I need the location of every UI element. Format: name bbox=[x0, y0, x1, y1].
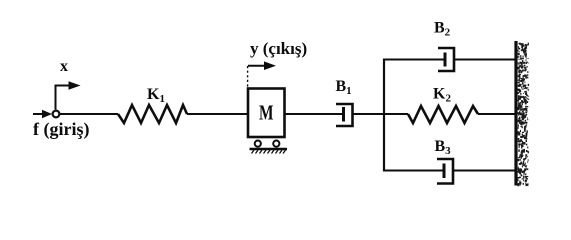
wire: bus to damper B2 rod bbox=[384, 59, 445, 61]
wire: damper B1 to junction bus bbox=[353, 113, 385, 115]
wire: spring K1 to mass bbox=[187, 113, 247, 115]
svg-text:f (giriş): f (giriş) bbox=[33, 119, 89, 140]
wheel left bbox=[255, 141, 261, 147]
wall edge line bbox=[514, 41, 517, 186]
mass M box bbox=[248, 89, 285, 138]
svg-text:x: x bbox=[60, 58, 68, 75]
damper B2 piston plate bbox=[444, 53, 447, 67]
svg-text:y (çıkış): y (çıkış) bbox=[250, 39, 307, 58]
damper B3 cylinder bbox=[437, 159, 453, 184]
damper B3 piston plate bbox=[443, 164, 446, 179]
wheel right bbox=[273, 141, 279, 147]
ground line under wheels bbox=[250, 148, 288, 150]
damper B1 piston plate bbox=[342, 107, 345, 122]
wire: damper B3 to wall bbox=[453, 170, 515, 172]
dashed leader from y arrow to mass top bbox=[247, 66, 249, 87]
svg-text:B2: B2 bbox=[434, 20, 451, 39]
wire: bus to spring K2 bbox=[384, 113, 408, 115]
wire: damper B2 to wall bbox=[454, 59, 515, 61]
spring K2 bbox=[408, 106, 478, 123]
svg-text:M: M bbox=[259, 101, 274, 125]
node: input pivot circle bbox=[53, 111, 60, 118]
svg-text:B1: B1 bbox=[336, 78, 352, 97]
svg-text:K2: K2 bbox=[433, 86, 451, 105]
input force arrow f bbox=[33, 110, 52, 119]
ground hatching bbox=[252, 150, 286, 154]
wire: bus to damper B3 rod bbox=[384, 170, 444, 172]
wire: mass to damper B1 piston rod bbox=[285, 113, 344, 115]
y output arrow bbox=[248, 61, 276, 70]
damper B1 cylinder bbox=[336, 104, 353, 126]
damper B2 cylinder bbox=[438, 48, 454, 71]
svg-text:K1: K1 bbox=[147, 86, 165, 105]
junction bus vertical wire bbox=[383, 59, 385, 172]
svg-text:B3: B3 bbox=[435, 138, 452, 157]
wire: spring K2 to wall bbox=[478, 113, 515, 115]
wall speckle texture bbox=[517, 43, 529, 187]
wire: node to spring K1 bbox=[59, 113, 118, 115]
spring K1 bbox=[118, 105, 187, 123]
x displacement arrow bbox=[56, 81, 81, 109]
